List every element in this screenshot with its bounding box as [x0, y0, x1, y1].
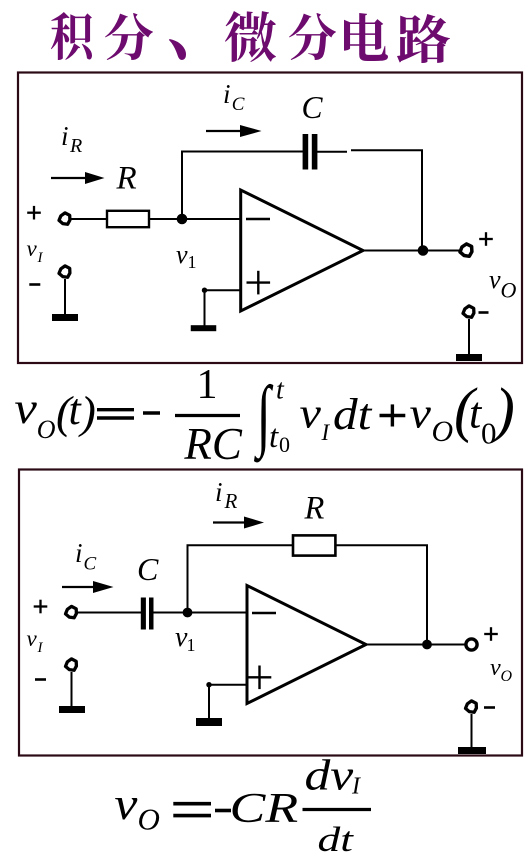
node + input terminal v_I (circuit 1) [59, 213, 70, 224]
svg-text:i: i [215, 477, 223, 507]
title 积分、微分电路 [51, 11, 450, 63]
plus polarity v_O (circuit 1) [479, 238, 493, 240]
svg-text:v: v [490, 655, 501, 681]
arrow i_R current direction (circuit 2) [213, 521, 246, 523]
arrow i_C current direction [206, 130, 242, 132]
svg-text:O: O [501, 668, 513, 685]
svg-text:dv: dv [305, 752, 355, 799]
svg-text:1: 1 [187, 635, 196, 655]
op-amp U1 inverting input marker [246, 218, 270, 220]
svg-text:t: t [276, 375, 285, 406]
wire lower terminal to ground (circuit 2) [71, 672, 73, 707]
op-amp U1 non-inverting input marker [247, 281, 271, 283]
svg-text:O: O [501, 278, 517, 303]
svg-text:i: i [61, 121, 69, 151]
formula 1: v_O(t) = -1/RC integral [14, 362, 514, 469]
node - lower input terminal (circuit 1) [59, 266, 70, 277]
svg-text:I: I [37, 640, 44, 656]
op-amp U2 non-inverting input marker [248, 676, 272, 678]
wire C1 to right segment a [317, 151, 347, 153]
svg-text:R: R [116, 161, 137, 197]
svg-text:I: I [321, 420, 331, 445]
ground output side (circuit 1) [456, 354, 482, 361]
svg-text:O: O [432, 415, 454, 448]
svg-text:v: v [489, 265, 501, 294]
wire input terminal to C2 [78, 612, 141, 614]
node - lower output terminal (circuit 1) [463, 306, 474, 317]
junction dot non-inverting wire (circuit 2) [206, 682, 211, 687]
wire R2 to right vertical [335, 544, 428, 546]
formula 2: v_O = -CR dv_I/dt [114, 752, 371, 858]
svg-text:1: 1 [188, 252, 197, 272]
plus polarity v_I (circuit 2) [34, 605, 48, 607]
ground input side (circuit 1) [52, 314, 78, 321]
wire op-amp U1 output [363, 250, 460, 252]
wire R1 to op-amp U1 inverting input [149, 218, 240, 220]
svg-text:i: i [223, 79, 231, 109]
svg-text:dt: dt [318, 820, 355, 859]
wire lower terminal to ground (circuit 1) [64, 279, 66, 315]
minus polarity v_I (circuit 1) [29, 283, 40, 286]
wire lower output terminal to ground (circuit 1) [468, 319, 470, 355]
svg-text:i: i [75, 538, 83, 568]
svg-text:C: C [84, 554, 97, 575]
ground op-amp U1 + input [191, 325, 217, 331]
junction node output (circuit 1) [418, 245, 429, 256]
node output terminal v_O (circuit 2) [466, 639, 477, 650]
op-amp U1 [241, 190, 363, 311]
minus polarity v_O (circuit 2) [484, 706, 495, 709]
minus polarity v_I (circuit 2) [35, 678, 46, 681]
svg-text:v: v [176, 240, 188, 269]
junction node output (circuit 2) [422, 640, 432, 650]
wire non-inverting input (circuit 1) [205, 289, 242, 291]
op-amp U2 inverting input marker [252, 612, 276, 614]
svg-text:0: 0 [279, 432, 290, 457]
svg-text:v: v [410, 389, 432, 437]
svg-text:C: C [137, 551, 159, 587]
svg-text:R: R [224, 489, 238, 513]
wire feedback left to R2 [187, 544, 295, 546]
ground input side (circuit 2) [59, 706, 85, 713]
svg-text:I: I [37, 250, 44, 266]
wire op-amp U2 output [366, 644, 466, 646]
arrow i_R current direction [51, 177, 87, 179]
svg-text:dt: dt [333, 390, 372, 439]
wire input terminal to R1 [71, 218, 108, 220]
node - lower output terminal (circuit 2) [466, 701, 477, 712]
capacitor C2 left plate [141, 598, 146, 630]
svg-text:v: v [300, 389, 322, 437]
ground output side (circuit 2) [458, 747, 486, 754]
resistor R1 [107, 211, 149, 227]
wire to ground non-inverting (circuit 1) [204, 290, 206, 326]
svg-text:v: v [114, 780, 137, 829]
junction dot non-inverting wire (circuit 1) [202, 288, 207, 293]
svg-text:): ) [78, 387, 96, 438]
wire feedback top left to C1 [181, 151, 304, 153]
frame: differentiator circuit box [19, 470, 522, 756]
wire to ground non-inverting (circuit 2) [208, 685, 210, 719]
svg-text:C: C [302, 90, 324, 125]
ground op-amp U2 + input [196, 718, 222, 726]
arrow i_C current direction (circuit 2) [62, 586, 95, 588]
minus polarity v_O (circuit 1) [479, 311, 489, 314]
svg-text:R: R [304, 491, 325, 527]
wire junction up to feedback (circuit 1) [181, 151, 183, 219]
svg-text:R: R [69, 135, 82, 157]
node output terminal v_O (circuit 1) [460, 244, 472, 256]
svg-text:v: v [27, 626, 38, 651]
capacitor C2 right plate [149, 598, 154, 630]
svg-text:RC: RC [183, 419, 242, 469]
resistor R2 [293, 535, 335, 555]
capacitor C1 left plate [303, 134, 309, 170]
svg-text:t: t [269, 419, 279, 455]
svg-text:O: O [37, 415, 56, 444]
wire lower output terminal to ground (circuit 2) [471, 714, 473, 748]
wire non-inverting input (circuit 2) [209, 684, 247, 686]
svg-text:v: v [14, 385, 37, 433]
svg-text:CR: CR [230, 785, 299, 831]
wire C1 to right segment b [351, 149, 423, 151]
svg-text:1: 1 [197, 362, 218, 408]
wire junction up to feedback (circuit 2) [187, 545, 189, 613]
wire feedback right vertical (circuit 1) [421, 150, 423, 250]
node + input terminal v_I (circuit 2) [66, 606, 77, 617]
svg-text:v: v [27, 236, 38, 261]
plus polarity v_I (circuit 1) [27, 212, 41, 214]
op-amp U2 [247, 586, 366, 704]
wire C2 to junction [153, 612, 247, 614]
frame: integrator circuit box [18, 73, 522, 364]
capacitor C1 right plate [312, 134, 318, 170]
svg-text:I: I [351, 774, 361, 800]
svg-text:C: C [232, 94, 245, 115]
wire feedback right vertical (circuit 2) [426, 545, 428, 645]
node - lower input terminal (circuit 2) [66, 659, 77, 670]
svg-text:): ) [492, 377, 515, 444]
plus polarity v_O (circuit 2) [484, 633, 498, 635]
junction node v1 (circuit 1) [177, 214, 188, 225]
svg-text:O: O [138, 802, 160, 837]
junction node v1 (circuit 2) [183, 608, 193, 618]
